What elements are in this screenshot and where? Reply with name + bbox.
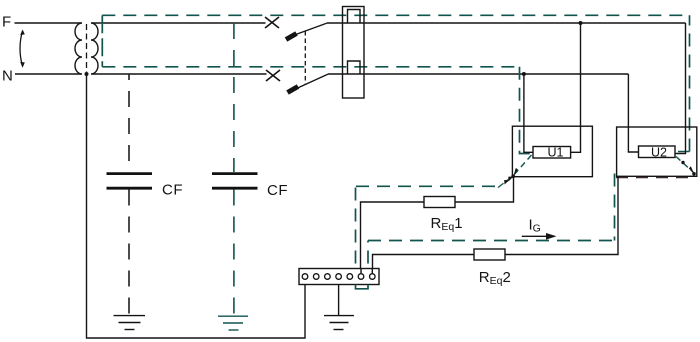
chassis dot U2 xyxy=(681,161,684,164)
chassis arrow inside U2 xyxy=(676,157,694,173)
transformer T1 core xyxy=(86,24,88,72)
chassis corner dot U2 xyxy=(692,172,696,176)
wire secondary bottom (neutral) xyxy=(92,73,267,75)
terminal 3 xyxy=(325,274,331,280)
solid REq2 wire xyxy=(373,176,619,273)
svg-text:CF: CF xyxy=(162,182,183,199)
capacitor CF2 top lead xyxy=(233,23,235,172)
plug pin 1 xyxy=(348,10,361,23)
resistor U1 xyxy=(533,147,571,159)
wire terminal 6 stub xyxy=(360,269,362,274)
ground under CF2 xyxy=(218,316,248,330)
capacitor CF2 xyxy=(212,174,258,189)
solid REq1 wire xyxy=(361,177,514,273)
wire live down to U1 right xyxy=(571,23,581,152)
capacitor CF1 xyxy=(107,174,153,189)
svg-text:U1: U1 xyxy=(548,145,564,159)
wire live after switch through plug xyxy=(327,22,686,24)
terminal 4 xyxy=(336,274,342,280)
capacitor CF1 bottom lead xyxy=(128,190,130,316)
dashed riser terminal block left xyxy=(355,186,357,284)
node dot live/U1 xyxy=(579,21,583,25)
wire block terminal 4 to ground xyxy=(338,285,340,316)
node dot neutral/U1 xyxy=(522,72,526,76)
terminal 5 xyxy=(347,274,353,280)
plug-socket body xyxy=(343,7,365,99)
ground-loop dashed down from U2 xyxy=(614,174,616,241)
dashed REq1 diagonal arrow to U1 chassis xyxy=(498,176,513,187)
PE dashed left vertical xyxy=(101,15,103,67)
chassis arrow inside U1 xyxy=(514,155,532,175)
current arrow IG xyxy=(522,235,549,237)
dashed riser to terminal block right xyxy=(367,241,369,285)
ground-loop dashed IG run xyxy=(368,240,615,242)
wire F to transformer xyxy=(15,22,82,24)
switch S1b blade xyxy=(288,87,299,93)
switch S1a contact cross xyxy=(265,17,279,28)
PE dashed lower run xyxy=(102,66,519,68)
ground-loop dashed from U2 bottom xyxy=(616,177,694,179)
neutral return wire to block xyxy=(87,74,306,338)
resistor REq2 xyxy=(474,249,505,260)
capacitor CF1 top lead xyxy=(128,74,130,172)
svg-text:N: N xyxy=(2,68,13,85)
transformer T1 secondary winding xyxy=(91,23,98,74)
switch S1b contact cross xyxy=(266,70,280,81)
switch S1a arm xyxy=(288,23,327,37)
dashed REq1 horizontal xyxy=(356,185,500,187)
svg-text:U2: U2 xyxy=(651,146,667,160)
wire N to transformer xyxy=(15,73,82,75)
terminal block xyxy=(299,269,379,285)
PE dashed jog into U2 xyxy=(678,151,690,153)
wire neutral down to U2 left xyxy=(628,74,638,152)
terminal 6 xyxy=(358,274,364,280)
resistor U2 xyxy=(639,146,676,158)
appliance U2 enclosure xyxy=(617,127,697,176)
PE dashed right vertical xyxy=(689,15,691,151)
terminal 7 xyxy=(370,274,376,280)
plug pin 2 xyxy=(348,61,361,74)
wire neutral after switch through plug xyxy=(328,73,628,75)
svg-text:F: F xyxy=(2,14,11,31)
PE dashed drop into U1 xyxy=(520,67,532,154)
ground under CF1 xyxy=(114,316,146,330)
PE dashed top run xyxy=(102,14,689,16)
dashed PE hook under block xyxy=(356,285,369,289)
chassis corner dot U1 xyxy=(511,174,515,178)
wire terminal 7 stub xyxy=(371,269,373,274)
terminal 2 xyxy=(313,274,319,280)
ground under terminal block xyxy=(324,316,354,330)
wire live down to U2 right xyxy=(675,23,686,154)
node dot neutral drop xyxy=(85,72,89,76)
switch S1a blade xyxy=(286,34,297,40)
svg-text:CF: CF xyxy=(267,182,288,199)
capacitor CF2 bottom lead xyxy=(233,190,235,317)
appliance U1 enclosure xyxy=(512,126,592,177)
switch S1b arm xyxy=(297,74,329,88)
transformer T1 primary winding xyxy=(75,23,82,74)
phase reversal arrow xyxy=(20,30,25,68)
terminal 1 xyxy=(302,274,308,280)
switch mechanical linkage xyxy=(304,31,306,85)
wire neutral down to U1 left xyxy=(524,74,533,152)
wire secondary top (live) xyxy=(92,22,266,24)
resistor REq1 xyxy=(424,197,455,208)
